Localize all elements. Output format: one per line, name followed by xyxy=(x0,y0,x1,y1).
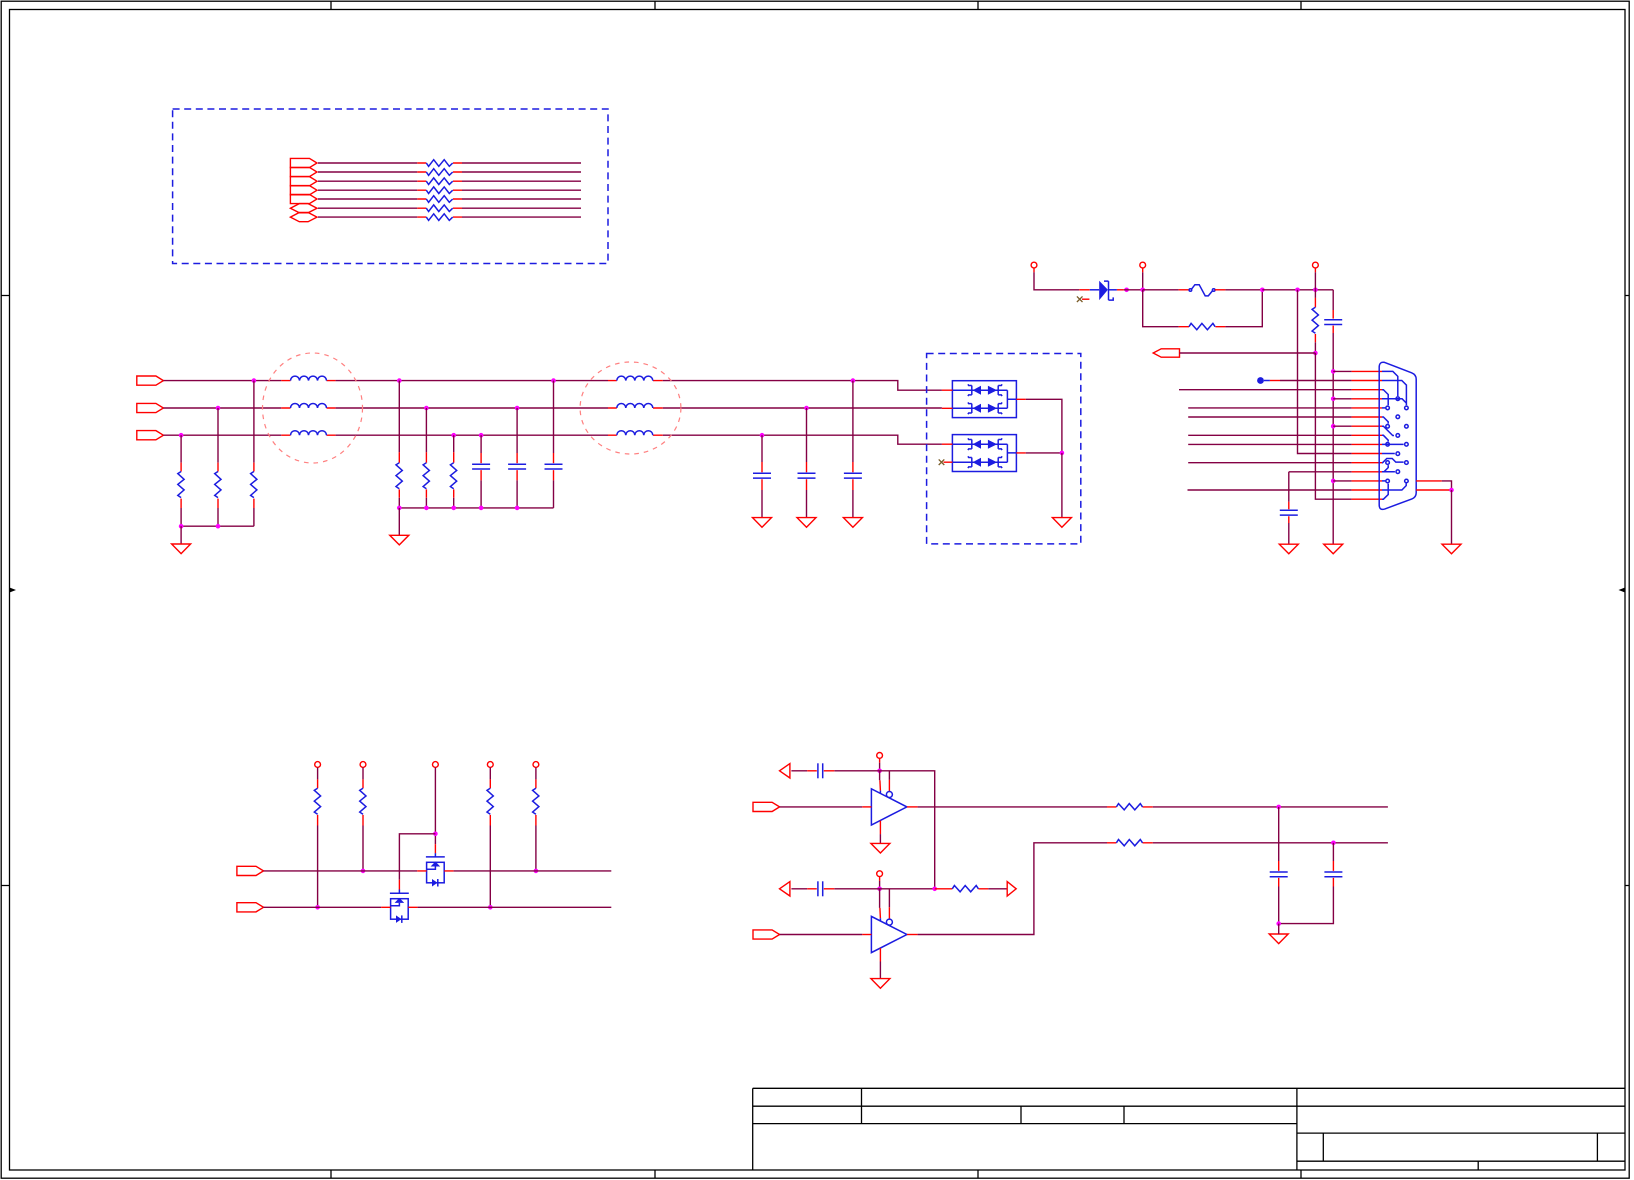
wire R44 down xyxy=(535,826,537,871)
wire OUT1 xyxy=(918,806,1107,808)
buffer1 enable stub xyxy=(888,780,890,791)
node R42 xyxy=(361,869,366,874)
resistor R23 xyxy=(253,463,255,508)
U2 ground stub xyxy=(879,948,881,961)
power pin V5 xyxy=(360,762,366,768)
dashed box ESD xyxy=(927,354,1081,544)
node B4 xyxy=(804,406,809,411)
wire pin4 xyxy=(1333,398,1351,400)
wire pin14 xyxy=(1188,489,1352,491)
node ESD gnd xyxy=(1060,451,1065,456)
transistor Q1 xyxy=(426,853,445,886)
capacitor C32 xyxy=(806,462,808,490)
node A4 xyxy=(851,378,856,383)
power pin V1 xyxy=(1031,262,1037,268)
wire line D left xyxy=(264,870,418,872)
port video B xyxy=(137,403,164,412)
resistor R42 xyxy=(362,779,364,825)
wire C22 to rail xyxy=(516,480,518,508)
node A1 xyxy=(252,378,257,383)
terminator ladder ports P1-P5 xyxy=(290,158,317,221)
wire buffer1 power pin xyxy=(879,771,881,781)
wire line5 right xyxy=(462,198,581,200)
resistor R25 xyxy=(425,452,427,498)
wire R25 to rail xyxy=(425,498,427,508)
U2 output stub xyxy=(907,934,918,936)
port video C xyxy=(137,431,164,440)
D2 pin stubs xyxy=(942,444,1026,462)
wire pin1 xyxy=(1333,370,1351,372)
capacitor C42 xyxy=(1288,502,1290,523)
wire C42 to ground xyxy=(1288,523,1290,544)
ground G53 xyxy=(1269,934,1288,944)
wire line2 left xyxy=(318,171,417,173)
zone ticks bottom xyxy=(331,1170,1301,1179)
ground G33 xyxy=(843,518,862,528)
wire line6 right xyxy=(462,207,581,209)
wire R24 to rail xyxy=(398,498,400,508)
wire line B segment 2 xyxy=(336,407,608,409)
wire line C segment 2 xyxy=(336,434,608,436)
wire D1 out xyxy=(1026,399,1062,453)
ferrite bead L2 xyxy=(281,407,335,409)
resistor R41 xyxy=(317,779,319,825)
D3 NC pin stub xyxy=(1082,298,1089,300)
port SCL xyxy=(237,903,264,912)
U1 output stub xyxy=(907,806,918,808)
resistor R12 xyxy=(417,171,462,173)
connector shell stub A xyxy=(1416,480,1442,482)
ground G1 xyxy=(172,544,191,554)
wire R26 drop xyxy=(453,435,455,452)
wire cap C53 drop xyxy=(1278,807,1280,861)
power pin V3 xyxy=(1313,262,1319,268)
wire R32 to port line xyxy=(1314,342,1316,353)
ground rail 2 xyxy=(399,507,553,509)
dashed ellipse around beads 2 xyxy=(580,362,681,454)
wire to right corner xyxy=(1262,289,1333,291)
resistor R53 xyxy=(1107,842,1153,844)
port P1 xyxy=(290,158,317,167)
wire V6 gate column xyxy=(434,768,436,845)
resistor R13 xyxy=(417,180,462,182)
wire R21 drop xyxy=(180,435,182,462)
node R41 xyxy=(315,905,320,910)
wire gate jog to Q2 xyxy=(399,834,435,880)
wire pin5 xyxy=(1188,407,1351,409)
wire line E left xyxy=(264,906,382,908)
D3 cathode stub xyxy=(1117,289,1124,291)
node B2 xyxy=(424,406,429,411)
port HSYNC out xyxy=(1153,349,1179,357)
resistor R32 vertical xyxy=(1314,290,1316,298)
connector J1 pin stubs xyxy=(1352,371,1382,499)
capacitor C52 xyxy=(807,888,834,890)
U2 input stub xyxy=(862,934,871,936)
wire IN1 xyxy=(780,806,863,808)
wire cap C54 drop xyxy=(1332,843,1334,861)
wire C33 drop xyxy=(852,381,854,462)
wire C33 to ground xyxy=(852,490,854,518)
diode array D1 xyxy=(952,381,1016,418)
ground G42 xyxy=(1279,544,1298,554)
node V2 xyxy=(1140,288,1145,293)
wire line6 left xyxy=(318,207,417,209)
node OUT1 cap xyxy=(1276,805,1281,810)
wire C53 to rail xyxy=(1278,887,1280,924)
wire C31 to ground xyxy=(761,490,763,518)
port P6 bidirectional xyxy=(290,204,317,213)
port P7 bidirectional xyxy=(290,213,317,222)
U1 ground stub xyxy=(879,821,881,834)
capacitor C54 xyxy=(1332,861,1334,887)
D1 pin stubs xyxy=(942,390,1026,408)
wire C32 drop xyxy=(806,408,808,462)
wire V10 drop xyxy=(879,881,881,889)
power pin V2 xyxy=(1140,262,1146,268)
ferrite bead L1 xyxy=(281,380,335,382)
wire line1 left xyxy=(318,162,417,164)
wire corner to cap column xyxy=(1332,290,1334,310)
wire V1 to diode xyxy=(1034,272,1079,290)
wire shell to ground xyxy=(1451,490,1453,544)
wire parallel branch left xyxy=(1143,290,1179,327)
node rail1 b xyxy=(216,524,221,529)
wire line7 right xyxy=(462,216,581,218)
resistor R24 xyxy=(398,452,400,498)
wire R22 drop xyxy=(217,408,219,463)
wire V4 xyxy=(317,768,319,780)
wire C23 drop xyxy=(553,381,555,453)
wire pin10 column xyxy=(1298,290,1352,454)
port ref2 xyxy=(780,882,790,896)
connector shell stub B xyxy=(1416,489,1451,491)
node A2 xyxy=(397,378,402,383)
wire pin2 xyxy=(1280,380,1352,382)
wire R21 to rail xyxy=(180,508,182,526)
capacitor C22 xyxy=(516,453,518,480)
wire C22 drop xyxy=(516,408,518,453)
wire OUT2 steps up xyxy=(918,843,1107,935)
wire R24 drop xyxy=(398,381,400,453)
node gnd col pin4 xyxy=(1331,397,1336,402)
wire OUT2 right xyxy=(1153,842,1388,844)
wire V7 xyxy=(489,768,491,780)
wire bypass line 2 xyxy=(791,888,934,890)
resistor R26 xyxy=(453,452,455,498)
wire V3 drop xyxy=(1314,272,1316,290)
Q1 stubs xyxy=(417,844,453,871)
wire pin7 xyxy=(1333,425,1351,427)
wire V9 drop xyxy=(879,763,881,771)
wire pin9 xyxy=(1188,443,1351,445)
wire cap C42 drop xyxy=(1288,472,1290,502)
fusible resistor F1 xyxy=(1179,289,1190,291)
wire pin13 xyxy=(1333,480,1351,482)
wire diode to junction xyxy=(1124,289,1143,291)
node after diode xyxy=(1124,288,1129,293)
ferrite bead L6 xyxy=(608,434,663,436)
wire line2 right xyxy=(462,171,581,173)
wire V8 xyxy=(535,768,537,780)
U1 input stub xyxy=(862,806,871,808)
node gnd col pin1 xyxy=(1331,369,1336,374)
capacitor C31 xyxy=(761,462,763,490)
wire line1 right xyxy=(462,162,581,164)
capacitor C33 xyxy=(852,462,854,490)
wire pin8 xyxy=(1188,434,1351,436)
wire line B segment 3 xyxy=(663,407,942,409)
ground G43 xyxy=(1442,544,1461,554)
wire C31 drop xyxy=(761,435,763,462)
node gnd col pin7 xyxy=(1331,424,1336,429)
wire line4 left xyxy=(318,189,417,191)
op-amp U2 buffer xyxy=(871,916,907,952)
buffer2 enable stub xyxy=(888,907,890,919)
ground G31 xyxy=(753,518,772,528)
V2 stub xyxy=(1142,268,1144,272)
wire R23 to rail xyxy=(253,508,255,526)
port IN2 xyxy=(753,930,780,939)
zone ticks top xyxy=(331,1,1301,10)
no connect x on D3 xyxy=(1077,296,1083,302)
dashed ellipse around beads 1 xyxy=(263,353,363,463)
wire to ground 1 xyxy=(180,526,182,544)
ground G2 xyxy=(390,535,409,545)
node enable join xyxy=(932,887,937,892)
wire R25 drop xyxy=(425,408,427,452)
wire pin11 xyxy=(1188,462,1351,464)
wire D2 out xyxy=(1026,452,1062,454)
resistor R44 xyxy=(535,779,537,825)
resistor R21 xyxy=(180,463,182,508)
wire pin6 xyxy=(1188,416,1351,418)
capacitor C23 xyxy=(553,453,555,480)
node C4 xyxy=(760,433,765,438)
wire bypass line 1 xyxy=(791,771,934,889)
node rail1 a xyxy=(179,524,184,529)
port P4 xyxy=(290,186,317,195)
node gnd col pin13 xyxy=(1331,479,1336,484)
wire U2 gnd xyxy=(879,962,881,979)
resistor R52 enable xyxy=(935,888,989,890)
port SDA xyxy=(237,866,264,875)
resistor R31 lower branch xyxy=(1179,326,1226,328)
node rail2 c xyxy=(451,506,456,511)
no connect x on D2 pin xyxy=(939,459,945,465)
resistor R15 xyxy=(417,198,462,200)
node sync drop 2 xyxy=(1313,288,1318,293)
wire C21 to rail xyxy=(480,480,482,508)
wire buffer2 power pin xyxy=(879,889,881,908)
wire IN2 xyxy=(780,934,863,936)
power pin V7 xyxy=(487,762,493,768)
wire buffer2 enable jog xyxy=(888,889,890,907)
wire line E right xyxy=(418,906,612,908)
op-amp U1 buffer xyxy=(871,789,907,825)
port P2 xyxy=(290,167,317,176)
ground G52 xyxy=(871,979,890,989)
wire line3 right xyxy=(462,180,581,182)
power pin V10 xyxy=(877,871,883,877)
resistor R14 xyxy=(417,189,462,191)
centre arrow right xyxy=(1619,588,1626,593)
node C2 xyxy=(451,433,456,438)
node B3 xyxy=(515,406,520,411)
dashed box termination network xyxy=(173,109,608,264)
ground G51 xyxy=(871,843,890,853)
diode array D2 xyxy=(952,435,1016,472)
port IN1 xyxy=(753,802,780,811)
diode D3 xyxy=(1079,289,1090,291)
wire R42 down xyxy=(362,826,364,871)
wire line3 left xyxy=(318,180,417,182)
wire port to node xyxy=(1180,352,1316,354)
resistor R11 xyxy=(417,162,462,164)
power pin V4 xyxy=(315,762,321,768)
wire C54 to rail xyxy=(1279,887,1334,924)
wire rail to ground xyxy=(1278,924,1280,934)
wire shell A corner xyxy=(1442,481,1452,490)
node rail2 a xyxy=(397,506,402,511)
wire line4 right xyxy=(462,189,581,191)
node R43 xyxy=(488,905,493,910)
node rail2 e xyxy=(515,506,520,511)
zone ticks right xyxy=(1625,296,1630,886)
wire ESD to ground xyxy=(1061,453,1063,518)
ferrite bead L3 xyxy=(281,434,335,436)
capacitor C53 xyxy=(1278,861,1280,887)
resistor R43 xyxy=(489,779,491,825)
wire cap down ground column xyxy=(1332,333,1334,544)
node A3 xyxy=(551,378,556,383)
wire R41 down xyxy=(317,826,319,908)
power pin V6 xyxy=(433,762,439,768)
port P5 xyxy=(290,194,317,203)
power pin V9 xyxy=(877,753,883,759)
net tie blue dot xyxy=(1257,377,1264,384)
resistor R51 xyxy=(1107,806,1153,808)
node rail2 b xyxy=(424,506,429,511)
wire line A segment 3 steps to ESD box xyxy=(663,381,942,391)
wire OUT1 right xyxy=(1153,806,1388,808)
wire line A segment 1 xyxy=(163,380,281,382)
node rail2 d xyxy=(479,506,484,511)
wire line C segment 3 steps to ESD box xyxy=(663,435,942,444)
ground rail 1 xyxy=(181,525,254,527)
F1 right stub xyxy=(1215,289,1226,291)
ground G41 xyxy=(1324,544,1343,554)
V3 stub xyxy=(1314,268,1316,272)
wire R31 up to node xyxy=(1225,290,1262,327)
wire R22 to rail xyxy=(217,508,219,526)
node cap rail xyxy=(1276,921,1281,926)
ground G32 xyxy=(797,518,816,528)
capacitor C41 xyxy=(1332,310,1334,333)
ferrite bead L5 xyxy=(608,407,663,409)
wire line7 left xyxy=(318,216,417,218)
wire U1 gnd xyxy=(879,834,881,843)
port P3 xyxy=(290,177,317,186)
wire R26 to rail xyxy=(453,498,455,508)
title block xyxy=(753,1088,1625,1170)
V1 stub xyxy=(1033,268,1035,272)
wire line C segment 1 xyxy=(163,434,281,436)
node shell xyxy=(1449,488,1454,493)
resistor R22 xyxy=(217,463,219,508)
node gate split xyxy=(433,832,438,837)
capacitor C21 xyxy=(480,453,482,480)
V10 stub xyxy=(879,877,881,881)
wire C32 to ground xyxy=(806,490,808,518)
wire C23 to rail xyxy=(553,480,555,508)
wire R23 drop xyxy=(253,381,255,463)
node port line xyxy=(1313,351,1318,356)
wire to ground 2 xyxy=(398,508,400,535)
wire pin3 xyxy=(1179,389,1352,391)
node OUT2 cap xyxy=(1331,841,1336,846)
wire line B segment 1 xyxy=(163,407,281,409)
ferrite bead L4 xyxy=(608,380,663,382)
wire V5 xyxy=(362,768,364,780)
node bypass2 xyxy=(877,887,882,892)
node sync drop 1 xyxy=(1295,288,1300,293)
connector J1 inner traces xyxy=(1382,371,1406,499)
resistor R17 xyxy=(417,216,462,218)
wire pin15 column xyxy=(1315,353,1351,499)
port EN out xyxy=(1007,882,1016,897)
wire R52 to port xyxy=(988,888,1007,890)
transistor Q2 xyxy=(390,890,409,923)
zone ticks left xyxy=(1,296,10,886)
wire buffer1 enable jog xyxy=(888,771,890,780)
capacitor C51 xyxy=(807,770,834,772)
port video A xyxy=(137,376,164,385)
node C1 xyxy=(179,433,184,438)
node parallel join xyxy=(1260,288,1265,293)
wire C21 drop xyxy=(480,435,482,453)
wire F1 to node xyxy=(1225,289,1262,291)
Q2 stubs xyxy=(381,880,417,908)
V9 stub xyxy=(879,758,881,762)
wire pin12 cap branch xyxy=(1289,471,1352,473)
wire line D right xyxy=(454,870,612,872)
node R44 xyxy=(534,869,539,874)
node bypass1 xyxy=(877,769,882,774)
wire R43 down xyxy=(489,826,491,908)
wire line5 left xyxy=(318,198,417,200)
connector J1 pin circles xyxy=(1386,397,1408,483)
wire line A segment 2 xyxy=(336,380,608,382)
node B1 xyxy=(216,406,221,411)
resistor R16 xyxy=(417,207,462,209)
connector J1 outline xyxy=(1379,362,1416,509)
wire V2 drop xyxy=(1142,272,1144,290)
node C3 xyxy=(479,433,484,438)
ground G34 xyxy=(1052,518,1071,528)
port ref1 xyxy=(780,764,790,778)
power pin V8 xyxy=(533,762,539,768)
centre arrow left xyxy=(10,588,17,593)
